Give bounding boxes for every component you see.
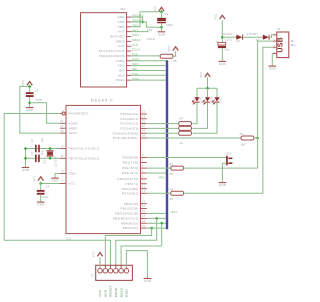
svg-text:28: 28	[142, 136, 146, 138]
junction GND pins	[141, 21, 144, 24]
U$1 pin 1 GND	[127, 16, 132, 18]
svg-text:25: 25	[142, 121, 146, 123]
junction LED rail	[206, 87, 209, 90]
supply VCC (R5)	[173, 47, 178, 51]
wire PD3 to bus (/IRQ)	[147, 172, 166, 174]
ground (C4)	[37, 201, 45, 203]
svg-text:26: 26	[142, 126, 146, 128]
svg-text:1k: 1k	[180, 141, 184, 145]
wire R3 to USB D-	[184, 167, 258, 169]
svg-text:LED1: LED1	[199, 96, 202, 104]
svg-text:12.00M: 12.00M	[55, 157, 58, 167]
wire MISO to ISP	[121, 223, 162, 267]
wire NIRQ to bus	[131, 60, 166, 62]
wire VCC to C2	[161, 12, 163, 18]
wire PB2 to bus (/SEL)	[147, 212, 166, 214]
wire VCC to LED rail	[207, 78, 209, 89]
svg-text:FSK/DATA/NFFS: FSK/DATA/NFFS	[99, 54, 125, 58]
P1 pin 1 VCC	[98, 269, 103, 274]
wire junction to D1	[222, 36, 237, 38]
svg-text:20: 20	[60, 131, 64, 133]
junction XTAL2	[49, 157, 52, 160]
wire caps to ground rail	[26, 149, 36, 168]
wire IC1 VCC pin	[41, 183, 60, 185]
svg-text:100n: 100n	[35, 97, 42, 101]
svg-text:10: 10	[60, 156, 64, 158]
crystal Q1	[46, 150, 53, 152]
svg-text:PB7(XTAL2/TOSC2): PB7(XTAL2/TOSC2)	[69, 156, 100, 160]
wire NSEL to bus	[131, 79, 166, 81]
wire PC3 to R8	[147, 127, 179, 129]
wire SCK to ISP	[105, 228, 151, 267]
svg-text:13: 13	[142, 191, 146, 193]
svg-text:8: 8	[62, 171, 64, 173]
svg-text:/IRQ: /IRQ	[158, 175, 165, 179]
svg-text:68: 68	[170, 172, 174, 176]
wire GND@2 to GND@7 join	[131, 17, 142, 22]
svg-text:VCC: VCC	[215, 14, 218, 20]
junction VCC C4	[39, 182, 42, 185]
IC1 pin 3 PD1(TXD)	[141, 161, 147, 163]
wire SCK to bus	[131, 74, 166, 76]
svg-text:U$1: U$1	[120, 7, 126, 11]
diode D2	[263, 35, 269, 40]
U$1 pin 7 CLK	[127, 45, 132, 47]
svg-text:2: 2	[142, 155, 144, 157]
IC1 pin 12 PD6(AIN0)	[141, 188, 147, 190]
svg-text:MEGA8-P: MEGA8-P	[91, 99, 114, 103]
svg-text:Q1: Q1	[43, 160, 46, 164]
capacitor C3	[35, 145, 37, 153]
svg-text:GND: GND	[37, 203, 44, 207]
diode D1	[236, 35, 242, 40]
U$1 pin 5 NINT/VDI	[127, 36, 132, 38]
junction VCC arrow	[28, 85, 31, 88]
wire D2 to USB VBUS pin	[269, 35, 273, 37]
wire R1 to D- line	[254, 137, 258, 139]
wire USB D- to R1/R3	[258, 41, 273, 168]
svg-text:VCC: VCC	[98, 289, 102, 297]
P1 pin 4 MOSI	[114, 269, 119, 274]
svg-text:23: 23	[142, 112, 146, 114]
svg-text:NRES: NRES	[132, 38, 141, 42]
svg-text:ANT: ANT	[118, 30, 125, 34]
svg-text:9: 9	[62, 146, 64, 148]
svg-text:MISO: MISO	[119, 287, 123, 297]
IC1 pin 15 PB1(OC1A)	[141, 208, 147, 210]
svg-text:VCC: VCC	[33, 175, 36, 181]
svg-text:R5: R5	[173, 59, 177, 63]
IC1 pin 7 VCC	[60, 183, 66, 185]
IC1 pin 1 PC6(RESET)	[60, 113, 62, 115]
IC1 pin 19 PB5(SCK)	[141, 227, 147, 229]
bus SPI/data (vertical)	[166, 60, 168, 229]
svg-text:D+: D+	[291, 43, 295, 47]
IC1 pin 10 PB7(XTAL2/TOSC2)	[60, 157, 66, 159]
wire FSK to R5	[131, 55, 160, 57]
resistor R9	[179, 131, 192, 135]
svg-text:6: 6	[142, 177, 144, 179]
supply VCC (ISP)	[97, 253, 102, 257]
wire LED1 cathode to R7	[192, 102, 197, 123]
svg-text:SCK: SCK	[118, 73, 125, 77]
svg-text:GND: GND	[117, 15, 124, 19]
wire R5 to VCC	[173, 51, 176, 56]
svg-text:GND: GND	[117, 20, 124, 24]
svg-text:15p: 15p	[41, 137, 44, 142]
wire AGND tap	[30, 103, 60, 124]
svg-text:CLK: CLK	[132, 43, 138, 47]
svg-text:PD6(AIN0): PD6(AIN0)	[122, 187, 139, 191]
ground (JP2)	[219, 182, 227, 184]
svg-text:68: 68	[170, 197, 174, 201]
LED2	[207, 88, 209, 97]
wire ISP GND	[126, 251, 147, 279]
svg-text:PC0(ADC0): PC0(ADC0)	[121, 112, 139, 116]
LED3	[216, 88, 218, 97]
svg-text:LED3: LED3	[220, 96, 223, 104]
IC1 pin 27 PC4(ADC4/SDA)	[141, 132, 147, 134]
IC1 pin 8 GND	[60, 173, 66, 175]
wire R4 to USB D+	[184, 192, 263, 194]
connector P1 ISP body	[96, 265, 133, 280]
wire C6 to ground	[29, 97, 31, 107]
svg-text:GND: GND	[219, 62, 226, 66]
U$1 pin 14 NSEL	[127, 79, 132, 81]
supply VCC (C6)	[27, 82, 32, 86]
IC1 pin 9 PB6(XTAL1/TOSC1)	[60, 148, 66, 150]
wire VCC to junction	[221, 20, 223, 42]
junction MISO	[160, 222, 163, 225]
svg-text:PD7(AIN1): PD7(AIN1)	[122, 191, 139, 195]
svg-text:PB6(XTAL1/TOSC1): PB6(XTAL1/TOSC1)	[69, 147, 100, 151]
svg-text:VCC: VCC	[22, 80, 25, 86]
ground (ISP)	[144, 278, 152, 280]
IC1 pin 5 PD3(INT1)	[141, 172, 147, 174]
svg-text:PC2(ADC2): PC2(ADC2)	[121, 122, 139, 126]
svg-text:NSEL: NSEL	[116, 78, 125, 82]
svg-text:PB4(MISO): PB4(MISO)	[121, 221, 138, 225]
svg-text:15: 15	[142, 206, 146, 208]
wire ISP VCC	[99, 257, 101, 267]
X1 pin 2	[273, 40, 277, 42]
svg-text:10µ: 10µ	[224, 48, 230, 52]
microcontroller IC1 MEGA8-P body	[66, 105, 141, 233]
svg-text:1k5: 1k5	[240, 143, 245, 147]
svg-text:C5: C5	[31, 151, 34, 155]
IC1 pin 24 PC1(ADC1)	[141, 118, 147, 120]
svg-text:MOSI: MOSI	[114, 288, 118, 297]
IC1 pin 14 PB0(ICP)	[141, 203, 147, 205]
svg-text:GND: GND	[219, 183, 226, 187]
svg-text:AGND: AGND	[69, 121, 79, 125]
capacitor C6	[26, 92, 34, 94]
wire IC1 GND pin to ground	[55, 174, 60, 178]
svg-text:GND: GND	[269, 67, 276, 71]
svg-text:16: 16	[142, 211, 146, 213]
U$1 pin 11 SDO	[127, 65, 132, 67]
svg-text:100n: 100n	[42, 195, 49, 199]
IC1 pin 18 PB4(MISO)	[141, 222, 147, 224]
svg-text:AVCC: AVCC	[69, 131, 78, 135]
svg-text:C2: C2	[165, 12, 169, 16]
P1 pin 5 MISO	[119, 269, 124, 274]
svg-text:NINT/VDI: NINT/VDI	[110, 35, 125, 39]
wire MOSI to ISP	[116, 218, 157, 267]
svg-text:19: 19	[142, 226, 146, 228]
junction C2 bottom	[160, 26, 163, 29]
svg-text:USB: USB	[278, 37, 285, 53]
wire PB6 XTAL1	[35, 148, 60, 150]
X1 pin 1	[273, 34, 277, 36]
svg-text:12: 12	[142, 186, 146, 188]
IC1 pin 16 PB2(SS/OC1B)	[141, 212, 147, 214]
RF module U$1 (RFM12) body	[81, 13, 127, 87]
wire SDI to bus	[131, 69, 166, 71]
svg-text:3: 3	[142, 160, 144, 162]
svg-text:NRES: NRES	[116, 39, 125, 43]
svg-text:PD0(RXD): PD0(RXD)	[122, 156, 138, 160]
svg-text:5: 5	[142, 171, 144, 173]
IC1 pin 21 AREF	[60, 127, 66, 129]
ground (USB)	[269, 65, 277, 67]
svg-text:PB0(ICP): PB0(ICP)	[124, 202, 139, 206]
svg-text:PC6(RESET): PC6(RESET)	[69, 112, 89, 116]
svg-text:AREF: AREF	[69, 126, 78, 130]
svg-text:PC4(ADC4/SDA): PC4(ADC4/SDA)	[113, 131, 139, 135]
wire SDO to bus	[131, 65, 166, 67]
svg-text:C3: C3	[31, 138, 34, 142]
U$1 pin 10 NIRQ	[127, 60, 132, 62]
svg-text:SDO: SDO	[118, 64, 126, 68]
wire PB3 MOSI to bus	[147, 217, 166, 219]
svg-text:VCC: VCC	[200, 72, 203, 78]
ground (C102)	[219, 60, 227, 62]
svg-text:C6: C6	[35, 89, 39, 93]
wire C102 to ground	[221, 48, 223, 61]
ground (IC1 pin 8)	[51, 177, 59, 179]
wire C4 to ground	[40, 195, 42, 202]
svg-text:14: 14	[142, 201, 146, 203]
wire LED3 cathode to R9	[192, 102, 217, 133]
supply VCC (C4)	[38, 177, 43, 181]
U$1 pin 8 DCLK/CFIL/FFIT	[127, 50, 132, 52]
U$1 pin 13 SCK	[127, 74, 132, 76]
svg-text:JP2: JP2	[226, 151, 232, 155]
svg-text:GND: GND	[69, 172, 76, 176]
supply VCC (USB power)	[220, 15, 225, 19]
svg-text:DCLK/CFIL/FFIT: DCLK/CFIL/FFIT	[99, 49, 125, 53]
svg-text:GND: GND	[158, 32, 165, 36]
ground (XTAL caps)	[22, 167, 30, 169]
capacitor C2	[157, 18, 166, 21]
svg-text:SDI: SDI	[119, 68, 125, 72]
wire PB5 SCK to bus	[147, 227, 166, 229]
svg-text:24: 24	[142, 117, 146, 119]
U$1 pin 9 FSK/DATA/NFFS	[127, 55, 132, 57]
svg-text:X1: X1	[277, 28, 281, 31]
wire VCC branch to AVCC	[20, 86, 60, 133]
svg-text:VCC: VCC	[154, 6, 157, 12]
wire D1 to D2	[243, 36, 263, 38]
X1 pin 3	[273, 46, 277, 48]
svg-text:PD2(INT0): PD2(INT0)	[122, 166, 139, 170]
wire LED2 cathode to R8	[192, 102, 207, 128]
svg-text:PB5(SCK): PB5(SCK)	[123, 226, 139, 230]
U$1 pin 12 SDI	[127, 69, 132, 71]
IC1 pin 20 AVCC	[60, 132, 66, 134]
wire ANT to pad	[131, 31, 148, 33]
svg-text:PD4(XCK/T0): PD4(XCK/T0)	[118, 177, 139, 181]
svg-text:D1: D1	[237, 40, 241, 43]
U$1 pin 6 NRES	[127, 40, 132, 42]
P1 pin 6 GND	[124, 269, 128, 274]
svg-text:GND: GND	[22, 168, 29, 172]
wire RESET net (long, to ISP)	[4, 114, 110, 268]
wire PC2 to R7	[147, 123, 179, 125]
svg-text:PD3(INT1): PD3(INT1)	[122, 171, 139, 175]
svg-text:11: 11	[142, 182, 145, 184]
junction AGND tap	[28, 102, 31, 105]
svg-text:SCK: SCK	[104, 289, 108, 297]
IC1 pin 2 PD0(RXD)	[141, 157, 147, 159]
IC1 pin 28 PC5(ADC5/SCL)	[141, 137, 147, 139]
svg-text:CLK: CLK	[118, 44, 125, 48]
wire PB7 XTAL2	[35, 157, 60, 159]
wire C2 to ground	[161, 23, 163, 31]
svg-text:/SEL: /SEL	[171, 210, 178, 214]
svg-text:VCC: VCC	[69, 182, 76, 186]
svg-text:NINT: NINT	[132, 33, 140, 37]
svg-text:18: 18	[142, 221, 146, 223]
svg-text:C4: C4	[45, 184, 49, 188]
svg-text:GND: GND	[125, 289, 129, 297]
svg-text:1N4007: 1N4007	[247, 32, 258, 36]
wire VDD to VCC rail	[131, 12, 161, 27]
wire PD0 to JP2	[147, 157, 227, 159]
wire PC5 to R1	[147, 137, 241, 139]
X1 pin 4	[273, 53, 277, 55]
svg-text:7: 7	[62, 181, 64, 183]
wire PD7 to R4	[147, 192, 171, 194]
junction cap ground rail	[24, 147, 27, 150]
svg-text:ANT: ANT	[147, 28, 153, 32]
supply VCC (at C2)	[159, 7, 164, 11]
P1 pin 2 SCK	[103, 269, 108, 274]
U$1 pin 3 VDD	[127, 26, 132, 28]
svg-text:VDD: VDD	[118, 25, 125, 29]
capacitor C5	[35, 155, 37, 163]
wire LED anode rail	[197, 87, 217, 89]
svg-text:4: 4	[142, 166, 144, 168]
U$1 pin 4 ANT	[127, 31, 132, 33]
wire PD2 to R3	[147, 167, 171, 169]
wire GND pins to C2 bottom node	[131, 22, 161, 27]
svg-text:100n: 100n	[166, 23, 173, 27]
svg-text:PB3(MOSI/OC2): PB3(MOSI/OC2)	[113, 217, 138, 221]
svg-text:PC1(ADC1): PC1(ADC1)	[121, 117, 139, 121]
svg-text:PC5(ADC5/SCL): PC5(ADC5/SCL)	[113, 136, 139, 140]
ground (C6)	[26, 107, 34, 109]
svg-text:VCC: VCC	[168, 45, 171, 51]
supply VCC (LED rail)	[205, 73, 210, 77]
svg-text:VCC: VCC	[92, 251, 95, 257]
U$1 pin 2 GND	[127, 21, 132, 23]
svg-text:R7: R7	[180, 116, 184, 120]
IC1 pin 25 PC2(ADC2)	[141, 123, 147, 125]
IC1 pin 23 PC0(ADC0)	[141, 113, 147, 115]
wire USB GND	[271, 54, 274, 66]
IC1 pin 22 AGND	[60, 122, 66, 124]
IC1 pin 13 PD7(AIN1)	[141, 192, 147, 194]
svg-text:HOLE: HOLE	[147, 37, 155, 41]
junction MOSI	[155, 217, 158, 220]
svg-text:DCLK: DCLK	[132, 48, 140, 52]
junction VCC C2 top	[160, 11, 163, 14]
svg-text:P1: P1	[92, 273, 95, 277]
IC1 pin 17 PB3(MOSI/OC2)	[141, 217, 147, 219]
svg-text:GND: GND	[26, 108, 33, 112]
wire PB4 MISO to bus	[147, 222, 166, 224]
svg-text:1N4007: 1N4007	[222, 32, 233, 36]
IC1 pin 4 PD2(INT0)	[141, 167, 147, 169]
junction XTAL1	[49, 147, 52, 150]
svg-text:PD5(T1): PD5(T1)	[125, 182, 138, 186]
svg-text:GND: GND	[52, 179, 59, 183]
junction R1 D-	[256, 137, 259, 140]
svg-text:GND: GND	[144, 279, 151, 283]
svg-text:17: 17	[142, 216, 146, 218]
svg-text:27: 27	[142, 131, 146, 133]
svg-text:PB2(SS/OC1B): PB2(SS/OC1B)	[115, 212, 139, 216]
IC1 pin 11 PD5(T1)	[141, 183, 147, 185]
wire JP2 to ground	[222, 163, 226, 182]
resistor R8	[179, 126, 192, 130]
wire USB D+ to R4	[263, 47, 273, 193]
P1 pin 3 RESET	[108, 269, 113, 274]
svg-text:PD1(TXD): PD1(TXD)	[123, 161, 139, 165]
junction VCC/C102/diode	[221, 36, 224, 39]
svg-text:PB1(OC1A): PB1(OC1A)	[121, 207, 139, 211]
resistor R5	[160, 54, 173, 58]
IC1 pin 6 PD4(XCK/T0)	[141, 178, 147, 180]
wire PC4 to R9	[147, 132, 179, 134]
LED1	[196, 88, 198, 97]
svg-text:15p: 15p	[41, 150, 44, 155]
svg-text:22: 22	[60, 121, 64, 123]
junction SCK	[150, 227, 153, 230]
svg-text:21: 21	[60, 126, 64, 128]
capacitor C4	[40, 184, 42, 190]
IC1 pin 26 PC3(ADC3)	[141, 127, 147, 129]
ground (C2)	[158, 31, 166, 33]
svg-text:PC3(ADC3): PC3(ADC3)	[121, 127, 139, 131]
svg-text:C102: C102	[224, 37, 232, 41]
svg-text:RESET: RESET	[109, 285, 113, 297]
wire VCC to C6	[29, 85, 31, 92]
svg-text:NIRQ: NIRQ	[116, 59, 125, 63]
